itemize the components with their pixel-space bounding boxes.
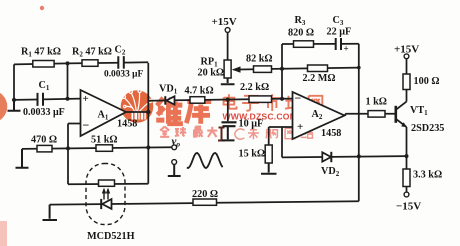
svg-text:20 kΩ: 20 kΩ (198, 68, 225, 79)
svg-text:4.7 kΩ: 4.7 kΩ (185, 86, 214, 97)
svg-text:820 Ω: 820 Ω (288, 28, 314, 39)
svg-text:C1: C1 (39, 80, 50, 92)
svg-text:100 Ω: 100 Ω (414, 76, 440, 87)
svg-text:C2: C2 (115, 45, 126, 57)
svg-text:+15V: +15V (212, 16, 237, 28)
svg-text:R3: R3 (295, 15, 306, 27)
svg-text:220 Ω: 220 Ω (192, 189, 218, 200)
svg-text:−: − (83, 118, 90, 132)
svg-text:1 kΩ: 1 kΩ (366, 97, 387, 108)
svg-text:51 kΩ: 51 kΩ (91, 135, 118, 146)
svg-text:−: − (295, 91, 302, 105)
svg-text:15 kΩ: 15 kΩ (239, 149, 266, 160)
svg-text:3.3 kΩ: 3.3 kΩ (413, 170, 442, 181)
svg-text:R1 47 kΩ: R1 47 kΩ (21, 47, 61, 59)
svg-text:+: + (344, 44, 349, 54)
svg-text:C3: C3 (333, 15, 344, 27)
svg-text:0.0033 μF: 0.0033 μF (104, 69, 143, 79)
svg-text:+: + (297, 121, 303, 133)
svg-text:2.2 kΩ: 2.2 kΩ (240, 82, 269, 93)
svg-text:vo: vo (172, 136, 181, 149)
svg-text:0.0033 μF: 0.0033 μF (23, 107, 65, 118)
svg-text:+15V: +15V (394, 44, 419, 56)
svg-text:+: + (83, 93, 89, 105)
svg-text:470 Ω: 470 Ω (31, 135, 57, 146)
svg-text:2.2 MΩ: 2.2 MΩ (303, 73, 336, 84)
svg-text:VD1: VD1 (159, 84, 178, 96)
svg-text:1458: 1458 (321, 128, 341, 139)
svg-text:1458: 1458 (117, 119, 137, 130)
svg-text:2SD235: 2SD235 (411, 123, 444, 134)
svg-text:10 μF: 10 μF (239, 119, 264, 130)
svg-text:MCD521H: MCD521H (87, 231, 135, 242)
svg-text:VD2: VD2 (321, 166, 340, 178)
svg-text:−15V: −15V (396, 201, 421, 213)
svg-text:82 kΩ: 82 kΩ (246, 54, 273, 65)
svg-text:VT1: VT1 (410, 105, 428, 117)
svg-text:22 μF: 22 μF (327, 27, 352, 38)
svg-text:R2 47 kΩ: R2 47 kΩ (72, 47, 112, 59)
